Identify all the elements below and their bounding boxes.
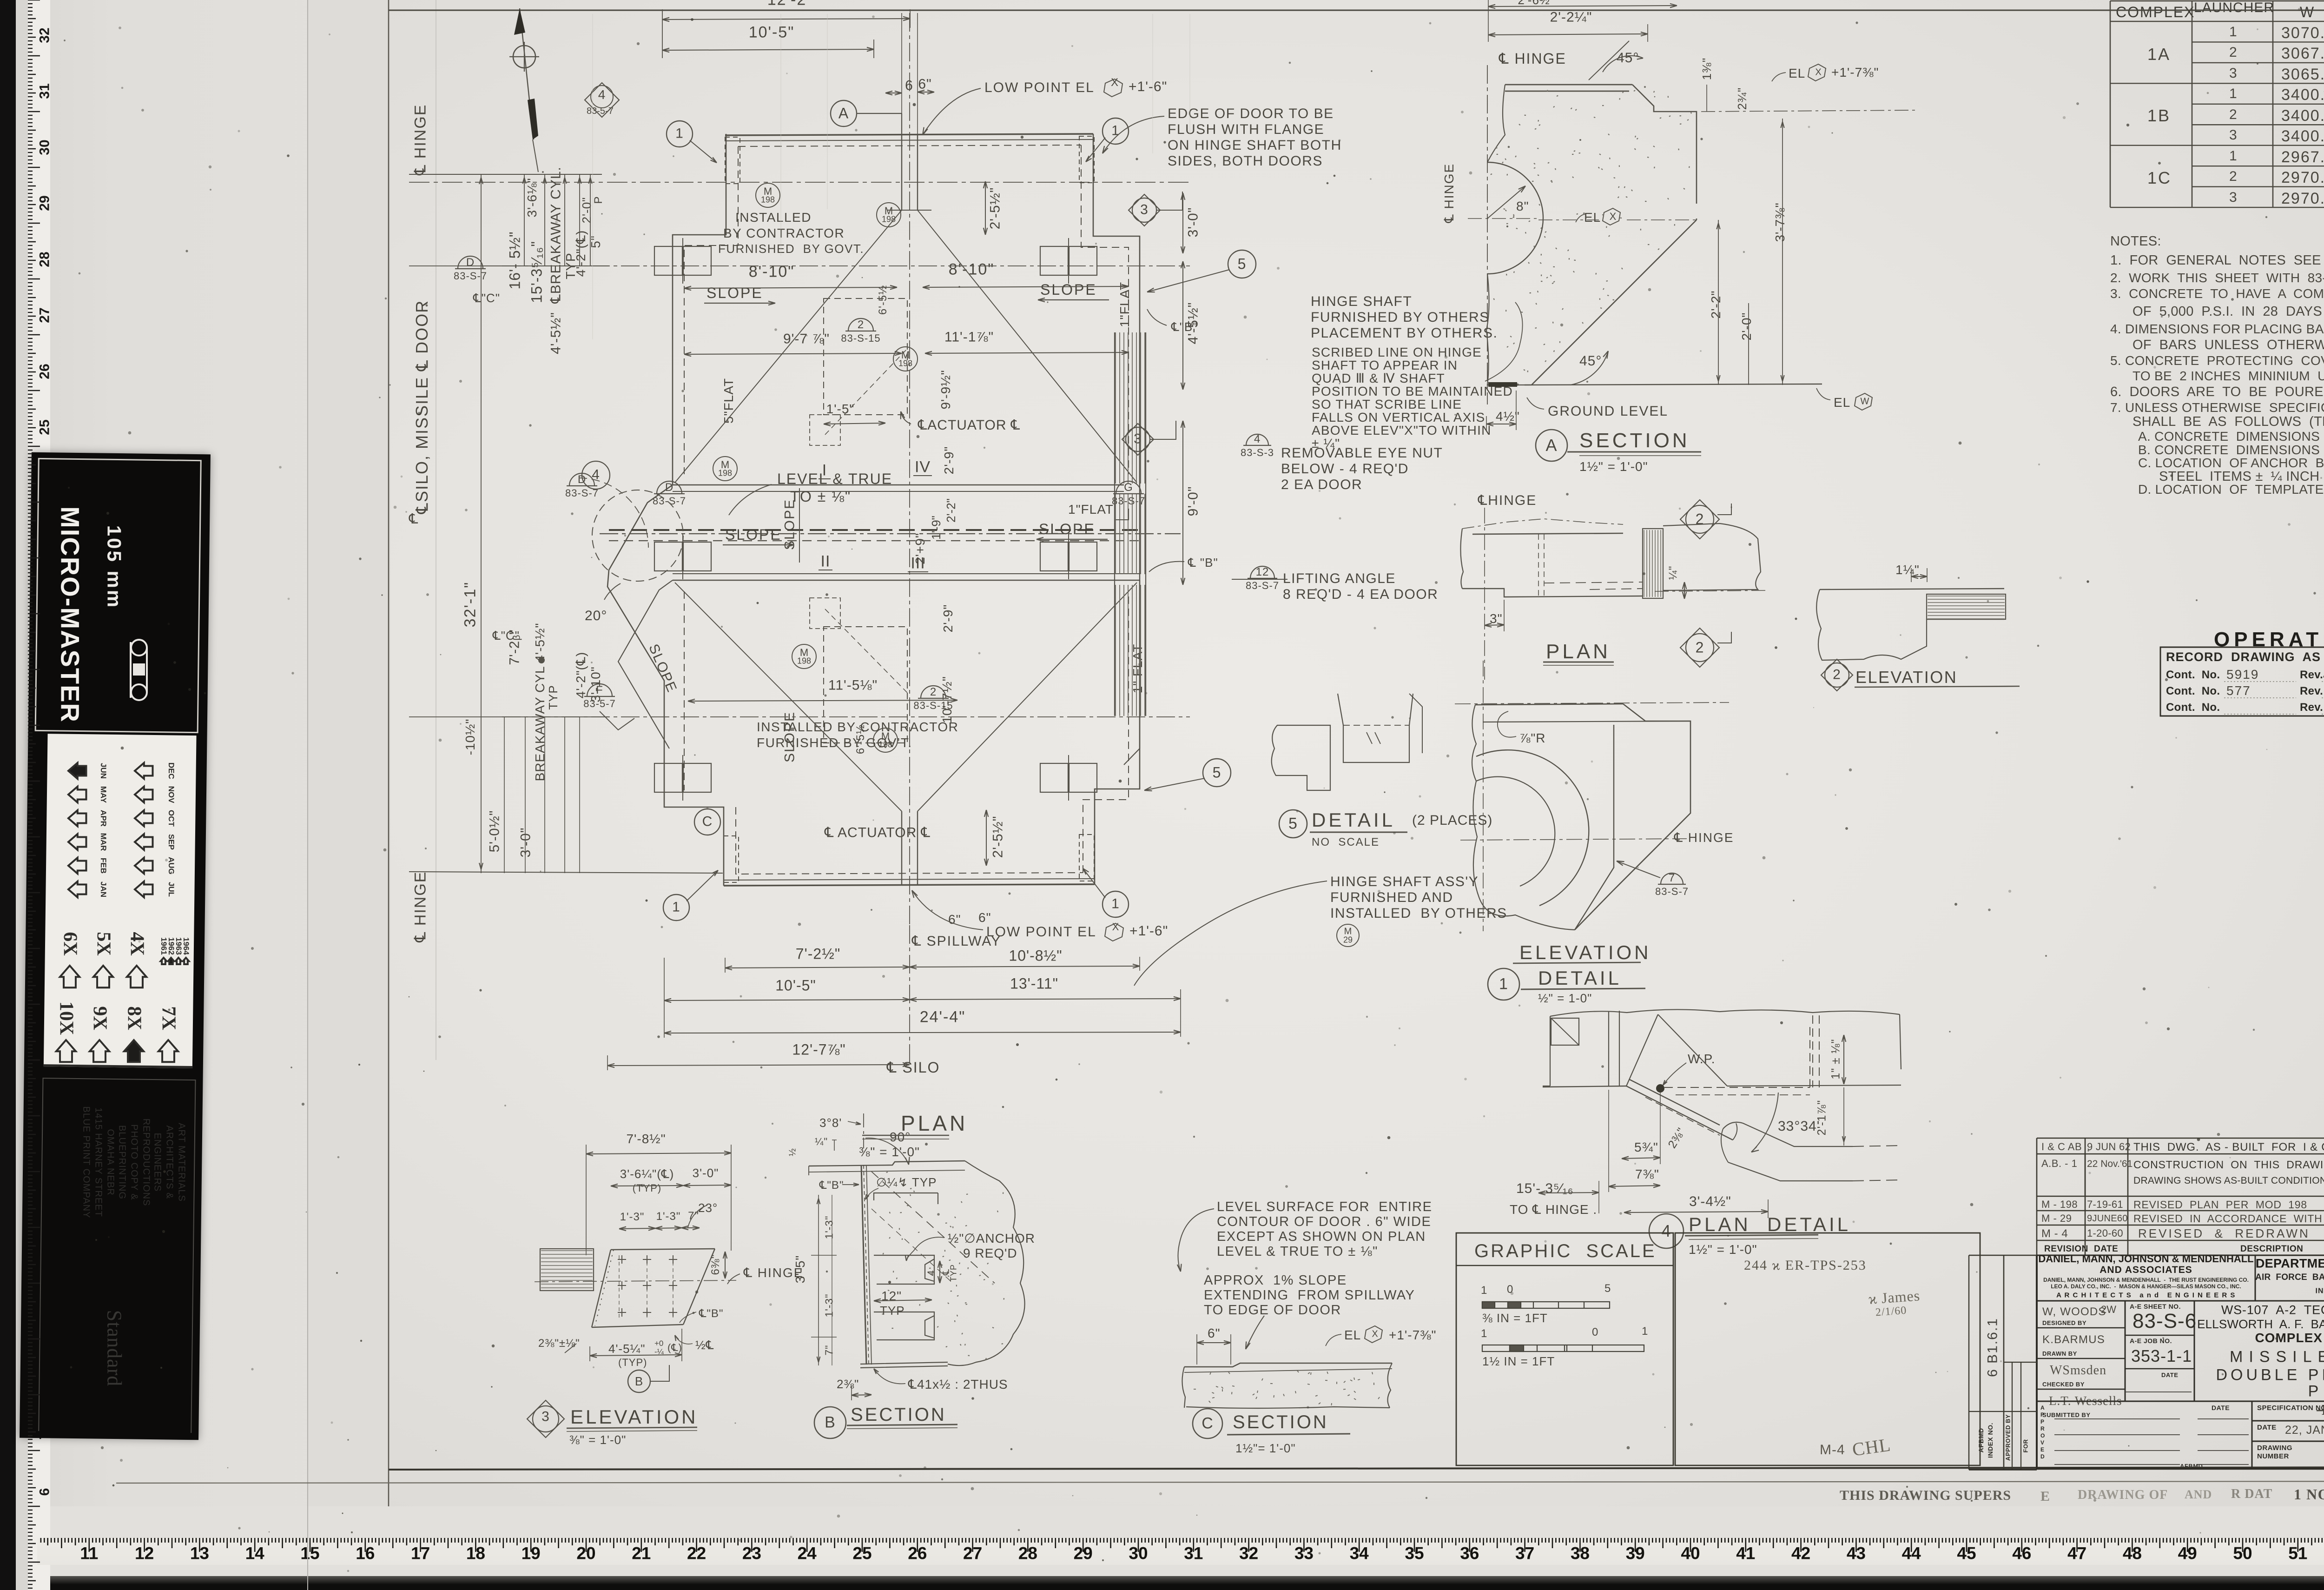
elevation 3 (hinge plate) — [586, 1153, 731, 1154]
bottom film edge — [0, 1576, 2324, 1590]
left dimension strings — [411, 104, 429, 175]
job stamp box — [1744, 1258, 1867, 1274]
revision history table — [2041, 1141, 2082, 1153]
elevation 3 (hinge plate) — [626, 1132, 666, 1146]
launcher elevation table — [2110, 1, 2111, 207]
left dimension strings — [409, 174, 602, 175]
elevation 2 detail — [1895, 563, 1920, 577]
top dimensions — [662, 19, 910, 20]
job stamp box — [1675, 1233, 1980, 1465]
detail 5 fragments — [1272, 725, 1330, 790]
micro-master film target label — [20, 452, 211, 1440]
micro-master film target label — [131, 640, 147, 700]
left vertical ruler — [28, 0, 40, 0]
C section — [1217, 1199, 1432, 1215]
bottom dimensions — [909, 925, 910, 1065]
left vertical ruler — [28, 0, 50, 1590]
title block — [2038, 1253, 2253, 1265]
elevation detail 1 — [1455, 702, 1729, 704]
C section — [1178, 1209, 1214, 1272]
graphic scale box — [1474, 1240, 1657, 1262]
sheet border lines — [307, 0, 308, 1590]
revision history table — [2036, 1138, 2038, 1255]
notes block — [2110, 234, 2161, 250]
hinge shaft plan detail — [1484, 508, 1485, 680]
detail 5 fragments — [1288, 815, 1298, 833]
elevation 2 detail — [1820, 589, 2004, 590]
main double pivot door plan — [725, 134, 1093, 135]
section A — [1499, 50, 1566, 67]
north/flow arrow — [520, 8, 534, 139]
title block — [2036, 1255, 2038, 1470]
operational stamp + record box — [2214, 628, 2324, 651]
hinge shaft plan detail — [1478, 493, 1537, 509]
left film edge — [0, 0, 16, 1590]
hatched edge strips — [1116, 332, 1145, 716]
operational stamp + record box — [2160, 647, 2324, 716]
elevation detail 1 — [1519, 731, 1546, 746]
hatched edge strips — [822, 461, 827, 479]
top dimensions — [767, 0, 813, 9]
launcher elevation table — [2116, 4, 2195, 21]
plan detail 4 — [1550, 1009, 1900, 1016]
plan detail 4 — [1688, 1052, 1716, 1067]
bottom horizontal ruler — [40, 1538, 42, 1543]
section A — [1487, 65, 1488, 404]
bottom horizontal ruler — [37, 1538, 2324, 1565]
B section — [819, 1116, 842, 1130]
graphic scale box — [1456, 1233, 1673, 1465]
bottom dimensions — [912, 934, 1001, 950]
B section — [863, 1113, 864, 1148]
film speckles — [2134, 1539, 2136, 1541]
